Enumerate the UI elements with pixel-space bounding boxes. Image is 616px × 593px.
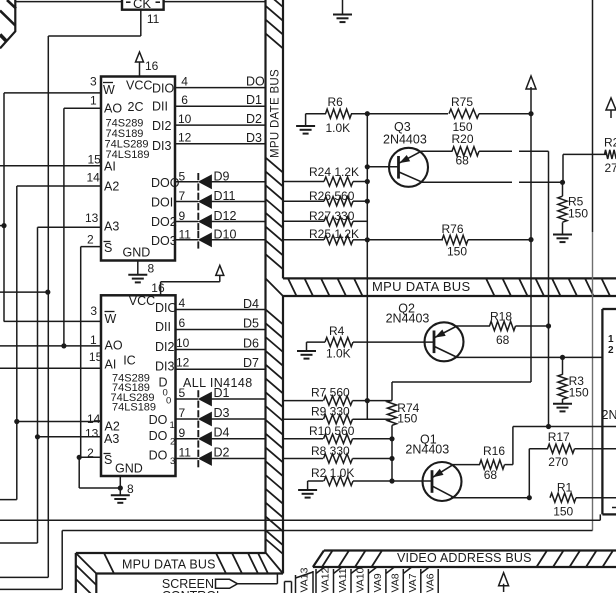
svg-text:3: 3	[90, 75, 97, 89]
svg-text:DI3: DI3	[152, 139, 172, 153]
svg-text:R6: R6	[328, 95, 344, 109]
svg-text:3: 3	[170, 456, 175, 467]
svg-text:13: 13	[85, 211, 99, 225]
svg-text:2N4403: 2N4403	[383, 133, 427, 147]
svg-text:DO: DO	[149, 413, 168, 427]
svg-text:16: 16	[145, 59, 159, 73]
svg-text:6: 6	[179, 316, 186, 330]
svg-text:2N: 2N	[602, 408, 616, 422]
svg-text:1: 1	[90, 94, 97, 108]
svg-text:5: 5	[179, 169, 186, 183]
svg-text:68: 68	[496, 333, 510, 347]
svg-text:9: 9	[179, 209, 186, 223]
svg-text:MPU DATE BUS: MPU DATE BUS	[269, 69, 281, 158]
svg-text:VA9: VA9	[372, 573, 384, 592]
svg-text:2N4403: 2N4403	[386, 311, 430, 325]
svg-text:R17: R17	[548, 430, 570, 444]
svg-text:R16: R16	[483, 444, 505, 458]
svg-text:3: 3	[90, 304, 97, 318]
svg-text:16: 16	[151, 281, 165, 295]
svg-text:AI: AI	[104, 160, 116, 174]
svg-text:VA12: VA12	[320, 567, 332, 592]
svg-text:DII: DII	[152, 100, 168, 114]
svg-text:A2: A2	[104, 180, 119, 194]
svg-text:9: 9	[179, 426, 186, 440]
svg-text:7: 7	[179, 189, 186, 203]
svg-text:DOO: DOO	[151, 176, 180, 190]
svg-text:R20: R20	[452, 132, 474, 146]
svg-text:8: 8	[148, 261, 155, 275]
svg-text:DO: DO	[246, 74, 265, 88]
svg-text:8: 8	[127, 482, 134, 496]
svg-text:15: 15	[88, 153, 102, 167]
svg-text:R7 560: R7 560	[311, 386, 350, 400]
svg-text:74LS189: 74LS189	[112, 402, 156, 414]
svg-text:11: 11	[147, 12, 160, 26]
svg-text:D3: D3	[214, 406, 230, 420]
svg-text:2: 2	[170, 437, 175, 448]
svg-text:150: 150	[553, 504, 573, 518]
svg-text:5: 5	[179, 386, 186, 400]
svg-text:D12: D12	[214, 209, 237, 223]
svg-text:DO3: DO3	[151, 234, 177, 248]
svg-text:6: 6	[181, 93, 188, 107]
svg-text:MPU DATA BUS: MPU DATA BUS	[122, 558, 216, 572]
svg-text:15: 15	[89, 350, 103, 364]
svg-text:1.0K: 1.0K	[326, 347, 351, 361]
svg-text:13: 13	[85, 427, 99, 441]
svg-text:R76: R76	[442, 222, 464, 236]
svg-text:VCC: VCC	[126, 79, 152, 93]
svg-text:IC: IC	[123, 354, 136, 368]
svg-text:2N4403: 2N4403	[405, 443, 449, 457]
svg-text:D7: D7	[243, 356, 259, 370]
svg-text:D4: D4	[243, 297, 259, 311]
svg-text:2C: 2C	[128, 100, 144, 114]
svg-text:68: 68	[484, 468, 498, 482]
svg-text:D1: D1	[246, 93, 262, 107]
svg-text:R4: R4	[329, 324, 345, 338]
svg-text:1: 1	[170, 420, 175, 431]
svg-text:D10: D10	[214, 227, 237, 241]
svg-text:R10 560: R10 560	[309, 424, 355, 438]
svg-text:AI: AI	[105, 358, 117, 372]
svg-text:10: 10	[176, 336, 190, 350]
svg-text:R9 330: R9 330	[311, 404, 350, 418]
svg-text:VA11: VA11	[337, 568, 349, 592]
svg-text:MPU DATA BUS: MPU DATA BUS	[372, 279, 470, 294]
svg-text:DO2: DO2	[151, 215, 177, 229]
svg-text:68: 68	[456, 154, 470, 168]
svg-text:1: 1	[90, 333, 97, 347]
svg-text:GND: GND	[123, 246, 151, 260]
svg-text:R27 330: R27 330	[309, 209, 355, 223]
svg-text:CK: CK	[133, 0, 151, 11]
svg-text:GND: GND	[115, 462, 143, 476]
svg-text:R2: R2	[604, 136, 616, 150]
svg-text:R26 560: R26 560	[309, 189, 355, 203]
svg-text:VA10: VA10	[355, 567, 367, 592]
svg-text:D9: D9	[214, 169, 230, 183]
svg-text:270: 270	[548, 455, 568, 469]
svg-text:S: S	[104, 241, 112, 255]
svg-text:VA7: VA7	[407, 573, 419, 592]
svg-text:150: 150	[568, 207, 588, 221]
svg-text:7: 7	[179, 406, 186, 420]
svg-text:VA13: VA13	[298, 567, 310, 592]
svg-text:2: 2	[608, 345, 614, 356]
svg-text:14: 14	[87, 412, 101, 426]
svg-text:27: 27	[605, 161, 616, 175]
svg-text:R75: R75	[451, 95, 473, 109]
svg-text:R1: R1	[557, 481, 573, 495]
svg-text:11: 11	[179, 446, 192, 460]
svg-text:12: 12	[176, 355, 190, 369]
svg-text:S: S	[104, 453, 112, 467]
svg-text:D1: D1	[214, 386, 230, 400]
svg-text:A3: A3	[104, 432, 119, 446]
svg-text:1.0K: 1.0K	[326, 121, 351, 135]
svg-text:14: 14	[87, 171, 101, 185]
svg-text:DI3: DI3	[155, 360, 175, 374]
svg-text:150: 150	[569, 386, 589, 400]
svg-text:R18: R18	[490, 310, 512, 324]
svg-text:R24 1.2K: R24 1.2K	[309, 165, 359, 179]
svg-text:DIO: DIO	[152, 82, 175, 96]
svg-text:12: 12	[178, 131, 192, 145]
svg-text:DIO: DIO	[155, 301, 178, 315]
svg-text:D6: D6	[243, 337, 259, 351]
svg-text:4: 4	[181, 74, 188, 88]
svg-text:150: 150	[397, 412, 417, 426]
svg-text:D5: D5	[243, 317, 259, 331]
svg-text:AO: AO	[104, 102, 122, 116]
svg-text:0: 0	[166, 396, 171, 407]
svg-text:DO: DO	[149, 449, 168, 463]
svg-text:CONTROL: CONTROL	[162, 589, 223, 593]
svg-text:DI2: DI2	[155, 340, 175, 354]
svg-text:4: 4	[179, 296, 186, 310]
svg-text:D2: D2	[214, 445, 230, 459]
svg-text:VA6: VA6	[424, 573, 436, 592]
svg-text:W: W	[105, 312, 117, 326]
svg-text:D11: D11	[214, 189, 236, 203]
svg-text:R8 330: R8 330	[311, 444, 350, 458]
svg-text:R2 1.0K: R2 1.0K	[311, 466, 354, 480]
svg-text:150: 150	[447, 245, 467, 259]
svg-text:AO: AO	[105, 339, 123, 353]
svg-text:1: 1	[608, 334, 614, 345]
svg-text:W: W	[103, 83, 115, 97]
svg-text:DI2: DI2	[152, 119, 172, 133]
svg-text:VIDEO ADDRESS BUS: VIDEO ADDRESS BUS	[397, 551, 532, 565]
svg-text:DO: DO	[149, 429, 168, 443]
svg-text:A3: A3	[104, 220, 119, 234]
svg-text:10: 10	[178, 112, 192, 126]
svg-text:R25 1.2K: R25 1.2K	[309, 227, 359, 241]
svg-text:D3: D3	[246, 131, 262, 145]
svg-text:DII: DII	[155, 320, 171, 334]
svg-text:VA8: VA8	[389, 573, 401, 592]
svg-text:D2: D2	[246, 112, 262, 126]
svg-text:2: 2	[87, 233, 94, 247]
svg-text:DOI: DOI	[151, 196, 173, 210]
svg-text:11: 11	[179, 227, 192, 241]
svg-text:VCC: VCC	[129, 294, 155, 308]
svg-text:D4: D4	[214, 426, 230, 440]
